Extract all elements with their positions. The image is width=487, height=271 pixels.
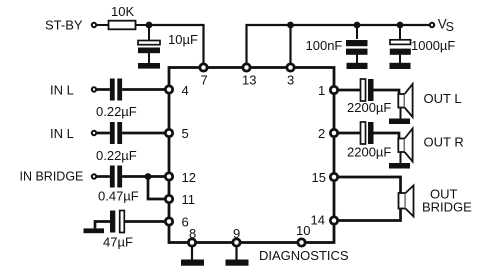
pin 6 xyxy=(165,218,172,225)
pin label 6 xyxy=(182,215,189,230)
label IN BRIDGE xyxy=(20,170,84,184)
capacitor C1 10uF plates xyxy=(138,41,160,54)
svg-text:1000µF: 1000µF xyxy=(411,38,455,53)
capacitor C7 47uF xyxy=(110,211,124,233)
pin label 4 xyxy=(182,83,189,98)
speaker OUT R xyxy=(398,129,412,162)
pin label 3 xyxy=(287,73,294,88)
pin label 9 xyxy=(233,226,240,241)
wire C5 to pin 5 xyxy=(122,132,166,135)
svg-text:1: 1 xyxy=(318,83,325,98)
ground below speaker OUT L xyxy=(389,119,410,125)
wire C2 to ground xyxy=(356,54,358,64)
label IN L first xyxy=(50,83,74,98)
speaker OUT L xyxy=(398,84,412,117)
svg-text:9: 9 xyxy=(233,226,240,241)
pin label 7 xyxy=(201,73,208,88)
label 10uF xyxy=(168,32,198,47)
svg-text:S: S xyxy=(446,20,454,34)
capacitor C4 0.22uF xyxy=(110,79,122,101)
pin label 8 xyxy=(189,226,196,241)
wire pin 15 to speaker bridge top xyxy=(337,177,401,193)
svg-text:100nF: 100nF xyxy=(306,38,343,53)
svg-text:DIAGNOSTICS: DIAGNOSTICS xyxy=(259,248,349,263)
pin label 5 xyxy=(182,126,189,141)
svg-text:2200µF: 2200µF xyxy=(347,145,391,160)
wire IN BRIDGE terminal to C6 xyxy=(97,175,110,178)
ground below C1 xyxy=(138,63,160,69)
label 10K xyxy=(111,4,134,19)
svg-text:2200µF: 2200µF xyxy=(347,100,391,115)
svg-text:OUT R: OUT R xyxy=(424,135,464,150)
pin 4 xyxy=(165,86,172,93)
wire C8 to speaker OUT L xyxy=(374,90,400,94)
label OUT BRIDGE xyxy=(422,187,472,215)
svg-text:BRIDGE: BRIDGE xyxy=(422,200,472,215)
svg-text:13: 13 xyxy=(242,73,256,88)
label 100nF xyxy=(306,38,343,53)
pin 8 xyxy=(188,239,195,246)
svg-text:0.22µF: 0.22µF xyxy=(96,104,137,119)
label 0.22uF first xyxy=(96,104,137,119)
label DIAGNOSTICS xyxy=(259,248,349,263)
svg-text:10: 10 xyxy=(296,223,310,238)
wire ground to C7 xyxy=(95,222,110,229)
node bridge input junction xyxy=(145,173,152,180)
node pin 3 riser junction xyxy=(287,22,294,29)
svg-text:8: 8 xyxy=(189,226,196,241)
pin 10 xyxy=(298,239,305,246)
pin 13 xyxy=(243,64,250,71)
label 2200uF first xyxy=(347,100,391,115)
capacitor C9 2200uF xyxy=(361,122,374,144)
label OUT L xyxy=(424,91,462,106)
svg-text:2: 2 xyxy=(318,126,325,141)
wire C1 to ground xyxy=(148,53,150,63)
wire pin 3 riser xyxy=(289,25,291,64)
wire ST-BY terminal to R1 xyxy=(97,24,109,26)
pin 14 xyxy=(330,217,337,224)
ground below pin 9 xyxy=(226,260,249,266)
svg-text:0.22µF: 0.22µF xyxy=(96,148,137,163)
wire pin 8 to ground xyxy=(191,245,193,260)
speaker OUT BRIDGE xyxy=(399,186,414,217)
wire pin 1 to C8 xyxy=(337,89,361,92)
wire speaker OUT L to ground xyxy=(400,108,402,119)
pin label 14 xyxy=(311,213,325,228)
svg-text:IN L: IN L xyxy=(50,126,74,141)
svg-text:11: 11 xyxy=(182,192,196,207)
terminal ST-BY input xyxy=(92,23,96,27)
node 100nF junction xyxy=(354,22,361,29)
label OUT R xyxy=(424,135,464,150)
svg-text:6: 6 xyxy=(182,215,189,230)
resistor R1 10K xyxy=(109,21,136,30)
wire C9 to speaker OUT R xyxy=(374,133,400,139)
wire IN L terminal to C4 xyxy=(97,88,110,91)
ground below speaker OUT R xyxy=(389,163,410,169)
svg-text:7: 7 xyxy=(201,73,208,88)
pin label 11 xyxy=(182,192,196,207)
svg-text:0.47µF: 0.47µF xyxy=(98,189,139,204)
node 1000uF junction xyxy=(397,22,404,29)
wire R1 to node ST-BY xyxy=(136,24,150,26)
capacitor C2 100nF plates xyxy=(346,40,368,55)
svg-text:15: 15 xyxy=(312,170,326,185)
svg-text:10K: 10K xyxy=(111,4,134,19)
pin label 1 xyxy=(318,83,325,98)
wire pin 14 to speaker bridge bottom xyxy=(337,209,401,221)
ground below C2 xyxy=(347,63,368,69)
capacitor C5 0.22uF xyxy=(110,122,122,144)
pin 9 xyxy=(233,239,240,246)
label 2200uF second xyxy=(347,145,391,160)
pin 12 xyxy=(165,173,172,180)
wire C3 to ground xyxy=(399,54,401,64)
terminal IN L first xyxy=(92,87,96,91)
svg-text:OUT L: OUT L xyxy=(424,91,462,106)
wire Vs rail with pin 13 riser xyxy=(247,25,433,64)
ground below C3 xyxy=(390,63,411,69)
svg-text:IN BRIDGE: IN BRIDGE xyxy=(20,170,84,184)
node ST-BY junction xyxy=(146,22,153,29)
pin 5 xyxy=(165,129,172,136)
capacitor C8 2200uF xyxy=(361,79,374,101)
pin 11 xyxy=(165,195,172,202)
pin label 15 xyxy=(312,170,326,185)
wire pin 9 to ground xyxy=(235,245,237,260)
pin 3 xyxy=(287,64,294,71)
pin label 12 xyxy=(182,170,196,185)
label IN L second xyxy=(50,126,74,141)
ground below pin 8 xyxy=(181,260,204,266)
svg-text:4: 4 xyxy=(182,83,189,98)
svg-text:10µF: 10µF xyxy=(168,32,198,47)
svg-text:ST-BY: ST-BY xyxy=(45,18,83,33)
pin 2 xyxy=(330,129,337,136)
op-amp U1 power amplifier IC body xyxy=(169,68,334,243)
wire C6 to pin 12 xyxy=(122,175,166,178)
label 0.47uF xyxy=(98,189,139,204)
label Vs xyxy=(438,17,454,34)
pin 1 xyxy=(330,86,337,93)
svg-text:IN L: IN L xyxy=(50,83,74,98)
svg-text:5: 5 xyxy=(182,126,189,141)
capacitor C2 100nF stem xyxy=(356,25,358,39)
terminal Vs xyxy=(430,23,434,27)
label 0.22uF second xyxy=(96,148,137,163)
wire IN R terminal to C5 xyxy=(97,132,110,135)
label ST-BY xyxy=(45,18,83,33)
terminal IN L second xyxy=(92,131,96,135)
label 1000uF xyxy=(411,38,455,53)
capacitor C3 1000uF plates xyxy=(390,40,411,55)
svg-text:14: 14 xyxy=(311,213,325,228)
pin label 10 xyxy=(296,223,310,238)
capacitor C3 1000uF stem xyxy=(399,25,401,39)
pin label 2 xyxy=(318,126,325,141)
wire C7 to pin 6 xyxy=(124,220,166,223)
wire junction to pin 11 xyxy=(148,177,166,200)
svg-text:47µF: 47µF xyxy=(103,235,133,250)
wire speaker OUT R to ground xyxy=(400,152,402,163)
wire node ST-BY to pin 7 xyxy=(149,25,204,64)
pin 15 xyxy=(330,173,337,180)
terminal IN BRIDGE xyxy=(92,174,96,178)
label 47uF xyxy=(103,235,133,250)
ground for C7 47uF xyxy=(84,228,105,233)
pin 7 xyxy=(200,64,207,71)
wire pin 2 to C9 xyxy=(337,132,361,135)
svg-text:12: 12 xyxy=(182,170,196,185)
svg-text:3: 3 xyxy=(287,73,294,88)
pin label 13 xyxy=(242,73,256,88)
capacitor C1 10uF stem top xyxy=(148,25,150,41)
capacitor C6 0.47uF xyxy=(110,166,122,188)
wire C4 to pin 4 xyxy=(122,88,166,91)
